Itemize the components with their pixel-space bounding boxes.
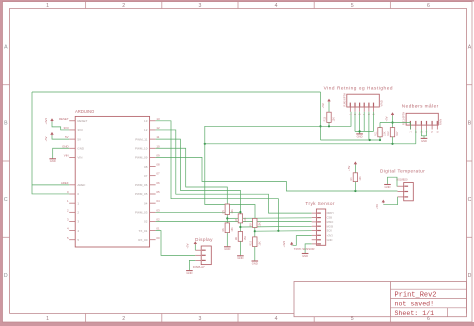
junction resistor bottom on wire C [379,139,381,141]
svg-text:AREF: AREF [77,183,85,187]
svg-text:GND: GND [237,256,243,260]
svg-text:02: 02 [156,217,160,221]
svg-text:6: 6 [427,3,430,9]
svg-text:TX_01: TX_01 [139,229,148,233]
supply arrow [354,162,356,165]
pin 08 (right) [144,163,160,169]
title block small divider in sheets row [447,308,449,317]
svg-text:DISPLAY: DISPLAY [193,265,205,269]
svg-text:15K: 15K [231,227,234,232]
svg-text:GND: GND [50,159,56,163]
pin PWM_06 (right) [135,181,160,187]
ground (divider2) [237,256,244,260]
pin 6 +3V3 of tryk connector [312,233,334,237]
svg-text:4: 4 [275,316,278,322]
svg-text:MISO: MISO [327,220,334,224]
svg-text:PWM_03: PWM_03 [135,211,148,215]
svg-text:R11: R11 [375,131,378,136]
svg-text:Print_Rev2: Print_Rev2 [395,291,437,299]
pin 2 (left) [67,208,79,214]
svg-text:Vind Retning og Hastighed: Vind Retning og Hastighed [324,85,393,90]
svg-text:+3V3: +3V3 [44,117,48,124]
ground (display) [186,271,193,275]
svg-text:+5V: +5V [375,204,379,209]
svg-text:GND: GND [252,261,258,265]
svg-text:15K: 15K [259,241,262,246]
pin 3 of display connector [195,259,205,261]
svg-text:08: 08 [156,163,160,167]
pin 4 of vind connector [363,103,366,115]
pin AREF (left) [61,181,86,187]
svg-text:2: 2 [122,316,125,322]
wire arrow down [392,116,394,128]
wire R8 to ground [239,241,241,255]
svg-text:PWM_09: PWM_09 [135,156,148,160]
svg-text:10K: 10K [359,176,362,181]
svg-text:PWM_06: PWM_06 [135,183,148,187]
connector J4 display [201,246,211,265]
svg-text:SCK: SCK [327,229,333,233]
pin 5V (left) [65,135,81,141]
wire R9 to R10 [254,228,256,237]
svg-text:C: C [468,197,472,203]
resistor [222,223,234,233]
wire +5V to nedbors pin1 [409,123,411,130]
resistor [375,128,387,137]
pin PWM_11 (right) [135,135,160,141]
wire DS18B20 gnd pin [388,177,398,186]
resistor [250,218,262,227]
pin 2 of DS18B20 [398,191,409,193]
pin 2 CSB of tryk connector [312,216,333,220]
svg-text:07: 07 [156,172,160,176]
wire vind gnd rail [355,130,374,132]
wire PWM_11 to divider R2 [156,139,241,214]
junction divider3 [254,230,256,232]
svg-text:10K: 10K [244,217,247,222]
junction R13 pullup on wire A [328,125,330,127]
svg-text:+3V3: +3V3 [282,240,286,247]
svg-text:09: 09 [156,153,160,157]
svg-text:3: 3 [198,3,201,9]
svg-text:4: 4 [275,3,278,9]
wire AREF net top horizontal [32,91,321,93]
pin 3 of nedbors connector [420,121,423,133]
svg-text:+5V: +5V [44,136,48,141]
svg-text:01: 01 [156,227,160,231]
svg-text:Display: Display [195,237,213,242]
pin 04 (right) [144,199,160,205]
junction +5V split [391,121,393,123]
ground (tryk) [302,254,309,258]
svg-text:1: 1 [46,316,49,322]
pin 1 of vind connector [349,103,352,115]
svg-text:10K: 10K [231,209,234,214]
wire GND pin to ground [53,148,69,158]
svg-text:AREF: AREF [61,181,69,185]
pin RESET (left) [59,117,88,123]
resistor [235,232,247,242]
supply arrow [392,113,394,116]
svg-text:GND: GND [224,247,230,251]
pin PWM_10 (right) [135,144,160,150]
ground (nedbors) [421,138,428,142]
resistor [350,173,362,182]
pin 8 of tryk connector [312,243,321,245]
connector J1 vind RJ45 [342,93,383,107]
ground (divider1) [224,247,231,251]
wire R11 to wire C [379,137,381,140]
wire B nedbors signal branch [205,143,416,145]
pin 5 of nedbors connector [431,121,434,133]
wire vind pin6 to gnd rail [373,112,375,132]
svg-text:PWM_11: PWM_11 [135,137,147,141]
svg-text:VIND: VIND [380,100,384,106]
supply arrow [51,119,53,122]
junction vind pin5 on wire C [369,139,371,141]
svg-text:10K: 10K [259,222,262,227]
svg-text:GND: GND [421,139,427,143]
svg-text:13: 13 [156,117,160,121]
svg-text:1: 1 [46,3,49,9]
wire 13 to tryk SCK divider row [156,121,279,231]
svg-text:12: 12 [144,128,148,132]
resistor [222,204,234,215]
svg-text:02: 02 [144,220,148,224]
pin 2 of vind connector [354,103,357,115]
wire +5V to display pin1 [194,245,196,251]
svg-text:3: 3 [198,316,201,322]
svg-text:+5V: +5V [347,166,351,171]
wire divider1 to tryk CSB [227,217,311,220]
svg-text:RAIN: RAIN [439,119,443,125]
wire A0 vertical + branch [32,92,69,194]
wire DS18B20 vdd [383,197,397,205]
wire vind pin4 to gnd rail [363,112,365,132]
svg-text:GND: GND [327,238,333,242]
svg-text:PWM_10: PWM_10 [135,146,148,150]
supply arrow [382,201,384,204]
svg-text:MOSI: MOSI [327,224,334,228]
wire rail to R11 [379,123,381,128]
wire R4 to data [354,182,356,191]
pin 3 MISO of tryk connector [312,220,334,224]
svg-text:GND: GND [186,271,192,275]
svg-text:10: 10 [156,144,160,148]
junction vind gnd [359,130,361,132]
pin 4 MOSI of tryk connector [312,224,334,228]
junction nedbors pullup on wire B [391,143,393,145]
svg-text:00: 00 [156,236,160,240]
pin 4 (left) [67,227,79,233]
pin 5 SCK of tryk connector [312,229,333,233]
wire display gnd pin [189,260,195,270]
svg-text:TRYK SENSOR: TRYK SENSOR [294,247,315,251]
connector J3 tryk sensor [316,209,325,245]
pin RX_00 (right) [138,236,160,242]
junction PWM_03 joins R2 feed [239,211,241,213]
pin GND (left) [62,144,85,150]
pin 02 (right) [144,217,160,223]
svg-text:VIN: VIN [64,153,69,157]
pin 1 of display connector [195,249,205,251]
pin PWM_09 (right) [135,153,160,159]
wire R6 to ground [226,233,228,247]
title block outline [294,282,467,317]
svg-text:11: 11 [156,135,159,139]
svg-text:13: 13 [144,119,148,123]
svg-text:GND: GND [62,144,68,148]
pin VIN (left) [64,153,83,159]
svg-text:B: B [4,121,8,127]
wire arrow to R4 [354,165,356,173]
svg-text:C: C [4,197,8,203]
svg-text:GND: GND [357,134,363,138]
supply arrow [194,242,196,245]
svg-text:03: 03 [156,208,160,212]
IC U2 DS18B20 [396,177,413,200]
svg-text:R12: R12 [387,131,390,136]
svg-text:07: 07 [144,174,148,178]
pin 7 GND of tryk connector [312,238,333,242]
wire R10 to ground [254,247,256,261]
svg-text:Nedbørs måler: Nedbørs måler [402,102,439,108]
svg-text:10K: 10K [333,117,336,122]
junction AREF vertical x wire A [319,125,321,127]
svg-text:3V3: 3V3 [77,128,83,132]
wire 02 to tryk MISO [156,221,312,223]
svg-text:+5V: +5V [384,116,388,121]
wire R12 to wire B [392,137,394,144]
svg-text:not saved!: not saved! [395,301,435,308]
wire +3V3 to tryk pin6 [292,236,311,246]
ground (arduino GND pin) [49,159,56,163]
svg-text:3V3: 3V3 [63,126,69,130]
svg-text:06: 06 [156,181,160,185]
svg-text:15K: 15K [244,236,247,241]
wire 12 to tryk DRDY [156,130,312,213]
wire tryk gnd pin [305,244,312,253]
svg-text:5V: 5V [65,135,69,139]
wire PWM_09 to DS18B20 data [156,157,398,191]
svg-text:4K7: 4K7 [396,131,399,136]
svg-text:12: 12 [156,126,160,130]
svg-text:+5V: +5V [321,103,325,108]
pin 4 of nedbors connector [426,121,429,133]
junction divider2 [239,226,241,228]
pin PWM_05 (right) [135,190,160,196]
wire arrow to R13 [328,102,330,112]
svg-text:05: 05 [156,190,160,194]
svg-text:RESET: RESET [59,117,69,121]
junction divider1 [226,217,228,219]
svg-text:+5V: +5V [186,243,190,248]
title block row lines [391,288,467,290]
svg-text:2: 2 [122,3,125,9]
wire +5V arrow to 5V pin [52,135,69,139]
supply arrow [328,100,330,103]
pin TX_01 (right) [139,227,160,233]
pin 0 (left) [67,190,79,196]
pin 1 (left) [67,199,79,205]
wire nedbors pins34 to gnd [421,130,426,136]
pin 1 of DS18B20 [398,185,409,187]
svg-text:RJ11 6PTH: RJ11 6PTH [402,112,406,125]
svg-text:Tryk Sensor: Tryk Sensor [305,201,335,206]
supply arrow [51,133,53,136]
pin 2 of nedbors connector [415,121,418,133]
pin 3 (left) [67,217,79,223]
svg-text:RESET: RESET [77,119,87,123]
wire divider3 to tryk SCK pin [255,230,312,233]
pin 13 (right) [144,117,160,123]
wire vind pin2 to gnd rail [354,112,356,132]
svg-text:DRDY: DRDY [327,211,335,215]
wire divider2 to tryk MOSI [240,225,311,228]
resistor [324,112,336,122]
pin 3 of DS18B20 [398,196,409,198]
ground (divider3) [252,261,259,265]
pin 3 of vind connector [359,103,362,115]
pin 5 (left) [67,236,79,242]
wire vind pin5 down to wire C [368,112,370,140]
resistor [250,237,262,247]
svg-text:D: D [4,273,8,279]
svg-text:A: A [4,44,8,50]
svg-text:5V: 5V [77,137,81,141]
resistor [387,128,399,137]
pin 1 of nedbors connector [409,121,412,133]
svg-text:04: 04 [144,201,148,205]
junction pullup on DS18B20 data [354,190,356,192]
resistor [235,214,247,223]
svg-text:VIN: VIN [77,156,82,160]
wire TX_01 to display [156,231,196,256]
pin 12 (right) [144,126,160,132]
wire nedbors pin2 to wire B [415,130,417,144]
connector J2 nedbors RJ11 [402,112,443,125]
svg-text:DS18B20: DS18B20 [396,177,408,181]
wire A vind pin1 via corner to R3 top [205,112,351,219]
wire AREF branch [32,184,69,186]
wire R5 to R6 [226,215,228,223]
svg-text:+3V3: +3V3 [327,233,334,237]
svg-text:08: 08 [144,165,148,169]
svg-text:RJ45 6PTH: RJ45 6PTH [342,93,346,107]
pin 6 of nedbors connector [436,121,439,133]
svg-text:Sheet: 1/1: Sheet: 1/1 [395,310,435,317]
wire +3V3 arrow to 3V3 pin [52,122,69,130]
svg-text:PWM_05: PWM_05 [135,192,148,196]
svg-text:CSB: CSB [327,216,333,220]
svg-text:5: 5 [351,3,354,9]
svg-text:R13: R13 [324,116,327,121]
wire to gnd bar [423,136,425,138]
IC U1 ARDUINO part box [75,116,149,247]
svg-text:GND: GND [302,254,308,258]
wire R7 to R8 [239,223,241,232]
svg-text:D: D [468,273,472,279]
pin 2 of display connector [195,254,205,256]
wire PWM_10 to divider R1 [156,148,228,204]
pin PWM_03 (right) [135,208,160,214]
svg-text:Digital Temperatur: Digital Temperatur [380,169,425,174]
svg-text:04: 04 [156,199,160,203]
svg-text:B: B [468,121,472,127]
pin 3V3 (left) [63,126,83,132]
svg-text:GND: GND [77,146,85,150]
wire +5V rail [380,122,410,124]
pin 07 (right) [144,172,160,178]
wire vind pin3 to gnd [359,112,361,134]
supply arrow [291,243,293,246]
wire R13 to wire A [328,122,330,126]
ground (DS18B20) [384,185,391,189]
svg-text:ARDUINO: ARDUINO [75,109,95,114]
junction wire B on wire A vertical [204,143,206,145]
pin 5 of vind connector [368,103,371,115]
pin 6 of vind connector [373,103,376,115]
wire AREF net right vertical [320,92,322,140]
junction pin13 joins R3 row [277,230,279,232]
svg-text:GND: GND [385,185,391,189]
svg-text:RX_00: RX_00 [138,238,148,242]
svg-text:A: A [468,44,472,50]
wire C wind-direction signal [321,139,381,141]
wire PWM_03 to divider R2 feed [156,211,241,213]
pin 1 DRDY of tryk connector [312,211,335,215]
svg-text:R10: R10 [250,241,253,246]
ground (vind) [356,134,363,138]
title block vertical divider [390,282,392,317]
